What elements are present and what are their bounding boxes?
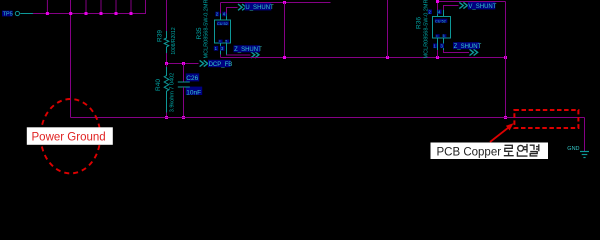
svg-text:V_SHUNT: V_SHUNT xyxy=(468,4,496,10)
annotation red dashed rectangle (PCB copper area) xyxy=(514,110,578,128)
junction xyxy=(115,12,118,15)
pin number 3 xyxy=(220,46,224,51)
svg-text:Z_SHUNT: Z_SHUNT xyxy=(454,44,482,50)
junction xyxy=(504,56,507,59)
svg-text:Power Ground: Power Ground xyxy=(32,132,106,144)
off-page connector DCP_FB xyxy=(200,60,233,68)
svg-text:R40: R40 xyxy=(155,79,162,91)
wire R35 pin4 to U_SHUNT xyxy=(227,8,238,14)
annotation red arrow xyxy=(490,123,514,142)
resistor R40 xyxy=(155,64,176,113)
pin number 2 xyxy=(428,9,432,14)
wire R39 bottom to DCP node xyxy=(166,53,168,64)
svg-text:R35: R35 xyxy=(196,27,203,39)
shunt resistor R36 xyxy=(416,0,451,58)
junction xyxy=(283,56,286,59)
junction xyxy=(182,62,185,65)
svg-text:10nF: 10nF xyxy=(186,90,201,97)
svg-text:C26: C26 xyxy=(186,75,198,82)
junction xyxy=(436,0,439,3)
pin number 2 xyxy=(215,12,219,17)
pin number 1 xyxy=(214,46,218,51)
svg-text:MCLR08568-5W-0.2MR: MCLR08568-5W-0.2MR xyxy=(204,0,210,58)
wire R36 pin4 to V_SHUNT xyxy=(444,6,459,11)
annotation callout Power Ground xyxy=(27,127,113,145)
svg-text:PCB Copper: PCB Copper xyxy=(437,147,502,159)
junction xyxy=(130,12,133,15)
wire vertical long x=71 xyxy=(70,0,72,118)
wire vertical pin x=86 xyxy=(85,0,87,14)
wire R35 pin3 to Z_SHUNT xyxy=(227,54,251,57)
wire vertical pin x=131 xyxy=(130,0,132,14)
svg-text:=: = xyxy=(436,34,438,38)
wire U net horizontal y=2 xyxy=(221,2,331,4)
junction xyxy=(436,56,439,59)
test point TP5 xyxy=(2,11,20,18)
wire horizontal bus y=13.5 xyxy=(33,13,146,15)
wire vertical x=387.5 xyxy=(387,0,389,58)
off-page connector U_SHUNT xyxy=(238,3,274,11)
pin number 3 xyxy=(440,43,444,48)
wire ground vertical right xyxy=(584,118,586,152)
junction xyxy=(165,116,168,119)
ground GND xyxy=(567,146,589,157)
svg-text:GND: GND xyxy=(567,146,579,152)
wire TP5 to bus (teal segment) xyxy=(20,13,33,15)
svg-text:CU 52: CU 52 xyxy=(217,22,228,26)
resistor R39 xyxy=(156,27,177,54)
wire C26 to ground bus xyxy=(183,87,185,118)
svg-text:5: 5 xyxy=(225,39,227,43)
junction xyxy=(46,12,49,15)
svg-text:DCP_FB: DCP_FB xyxy=(209,62,233,68)
wire vertical to R39 xyxy=(166,0,168,31)
svg-text:Z_SHUNT: Z_SHUNT xyxy=(234,47,262,53)
svg-text:R39: R39 xyxy=(156,30,163,42)
wire R36 pin3 to Z_SHUNT xyxy=(444,50,470,53)
junction xyxy=(165,62,168,65)
wire R36 pin2 up xyxy=(437,2,439,11)
wire DCP_FB horizontal xyxy=(167,63,199,65)
wire kelvin bus y=57.5 xyxy=(221,57,506,59)
shunt resistor R35 xyxy=(196,0,231,58)
wire R40 to ground bus xyxy=(166,113,168,118)
svg-text:U_SHUNT: U_SHUNT xyxy=(245,5,274,11)
wire vertical x=284 xyxy=(284,3,286,58)
wire R35 pin1 down xyxy=(220,55,222,58)
svg-text:1008/R2012: 1008/R2012 xyxy=(171,27,177,54)
wire vertical corner x=146 xyxy=(145,0,147,14)
wire vertical x=505 xyxy=(505,2,507,118)
off-page connector V_SHUNT xyxy=(459,2,496,10)
annotation red dashed ellipse (power ground) xyxy=(41,99,101,173)
wire R35 pin2 up xyxy=(220,3,222,14)
svg-text:=: = xyxy=(219,39,221,43)
pin number 1 xyxy=(433,43,437,48)
svg-text:TP5: TP5 xyxy=(3,11,13,17)
junction xyxy=(283,1,286,4)
off-page connector Z_SHUNT left xyxy=(234,45,263,58)
wire vertical pin x=47 xyxy=(46,0,48,14)
junction xyxy=(386,56,389,59)
junction xyxy=(182,116,185,119)
wire R36 pin1 down xyxy=(437,50,439,58)
annotation callout PCB Copper xyxy=(431,143,549,160)
wire V net horizontal y=1.5 xyxy=(438,1,506,3)
svg-text:CU 52: CU 52 xyxy=(435,19,446,23)
svg-text:3.9kohm 7 0402: 3.9kohm 7 0402 xyxy=(170,73,176,112)
svg-text:5: 5 xyxy=(443,34,445,38)
junction xyxy=(100,12,103,15)
wire vertical pin x=101 xyxy=(100,0,102,14)
capacitor C26 xyxy=(178,64,202,97)
pin number 4 xyxy=(438,9,442,14)
pin number 4 xyxy=(222,12,226,17)
junction xyxy=(85,12,88,15)
junction xyxy=(504,116,507,119)
junction xyxy=(69,12,72,15)
wire vertical pin x=116 xyxy=(115,0,117,14)
svg-text:R36: R36 xyxy=(416,17,423,29)
off-page connector Z_SHUNT right xyxy=(453,42,482,55)
wire ground horizontal y=117.5 xyxy=(71,117,585,119)
